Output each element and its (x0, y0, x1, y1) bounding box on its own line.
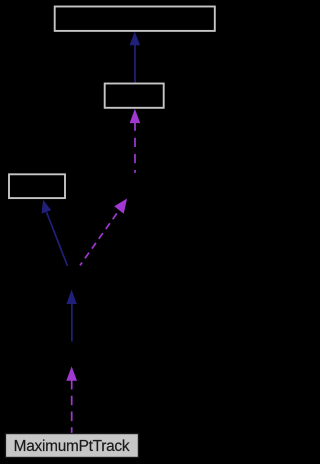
usage arrow (dashed magenta vertical) MaximumPtTrack -> hidden node D (66, 366, 77, 433)
inheritance arrow (solid blue) box2 -> box1 (130, 32, 141, 83)
svg-text:MaximumPtTrack: MaximumPtTrack (14, 438, 130, 455)
usage arrow (dashed magenta) hidden node B -> box2 (130, 109, 141, 173)
inheritance arrow (solid blue diagonal) hidden node C -> box3 (42, 200, 68, 266)
current node box: MaximumPtTrack (5, 434, 138, 458)
usage arrow (dashed magenta diagonal) hidden node C -> hidden node B (80, 199, 127, 266)
inheritance arrow (solid blue vertical) hidden node D -> hidden node C (66, 290, 76, 342)
node box (top base class, label not visible) (55, 7, 215, 31)
node box (second-level class, label not visible) (105, 84, 164, 108)
node box (left class, label not visible) (9, 174, 65, 198)
